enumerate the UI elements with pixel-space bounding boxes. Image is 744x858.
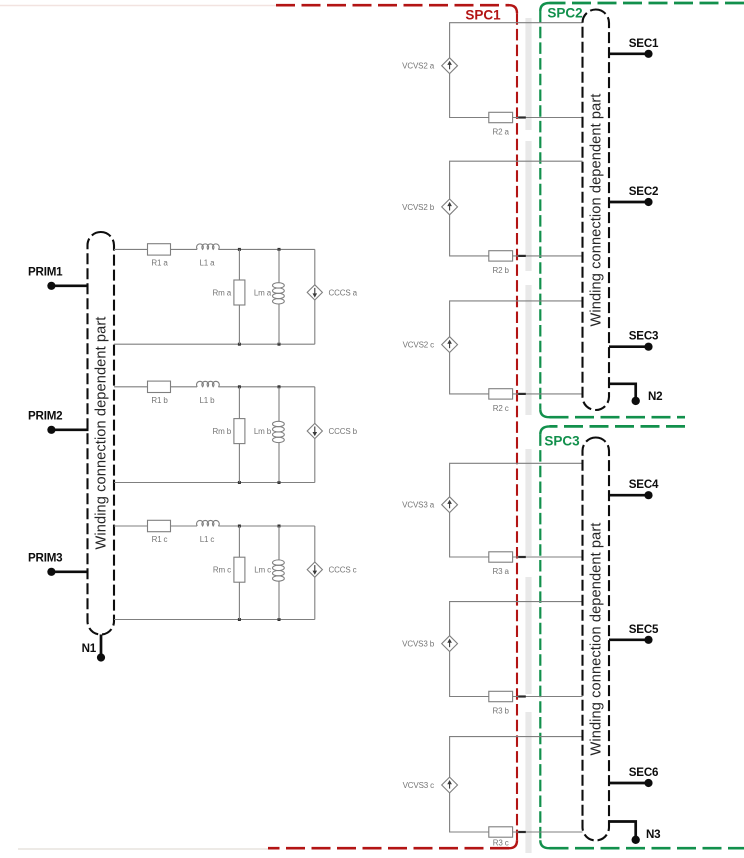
node N3 <box>609 822 661 845</box>
wire loop VCVS3 a bottom <box>450 513 583 557</box>
winding connection dependent part (SPC3 capsule) <box>583 438 610 841</box>
wire loop VCVS2 c top <box>450 301 583 337</box>
svg-text:R2 a: R2 a <box>493 128 510 137</box>
inductor Lm a <box>254 249 284 344</box>
wire loop VCVS3 a top <box>450 463 583 497</box>
resistor R2 b <box>489 251 513 275</box>
wire phase b top rail <box>114 386 315 388</box>
node SEC1 <box>609 37 659 58</box>
resistor R2 a <box>489 112 513 136</box>
wire loop VCVS2 b bottom <box>450 215 583 256</box>
svg-text:N3: N3 <box>646 828 661 841</box>
wire loop VCVS3 c top <box>450 737 583 778</box>
svg-text:SPC2: SPC2 <box>547 6 582 21</box>
boundary box SPC2 <box>540 3 744 417</box>
resistor R1 c <box>148 520 171 544</box>
svg-text:SEC4: SEC4 <box>629 478 659 491</box>
wire loop VCVS2 b top <box>450 161 583 199</box>
boundary box SPC3 <box>540 426 744 848</box>
wire loop VCVS2 a top <box>450 23 583 58</box>
resistor R1 b <box>148 381 171 405</box>
svg-text:N1: N1 <box>82 642 97 655</box>
controlled source CCCS a <box>307 249 357 344</box>
resistor Rm c <box>213 526 245 620</box>
wire phase a top rail <box>114 248 315 250</box>
resistor R3 a <box>489 552 513 576</box>
wire phase c bottom rail <box>114 619 315 621</box>
resistor R3 b <box>489 691 513 715</box>
svg-text:SEC6: SEC6 <box>629 766 659 779</box>
wire ghost residue top <box>0 5 276 7</box>
svg-text:R2 c: R2 c <box>493 404 509 413</box>
inductor Lm b <box>254 387 284 483</box>
svg-text:Lm c: Lm c <box>254 566 271 575</box>
svg-text:Winding connection dependent p: Winding connection dependent part <box>94 317 110 550</box>
winding connection dependent part (SPC2 capsule) <box>583 10 610 411</box>
svg-text:VCVS3 b: VCVS3 b <box>402 640 435 649</box>
svg-text:L1 c: L1 c <box>200 535 215 544</box>
inductor L1 b <box>197 381 220 405</box>
inductor L1 c <box>197 520 220 544</box>
node N2 <box>609 384 662 405</box>
inductor Lm c <box>254 526 284 620</box>
controlled source VCVS3 a <box>402 497 457 513</box>
svg-text:R3 a: R3 a <box>493 567 510 576</box>
svg-text:CCCS c: CCCS c <box>329 566 357 575</box>
svg-text:PRIM2: PRIM2 <box>28 410 62 423</box>
svg-text:R3 b: R3 b <box>493 707 510 716</box>
svg-text:Rm c: Rm c <box>213 566 231 575</box>
svg-text:PRIM1: PRIM1 <box>28 266 63 279</box>
svg-text:R3 c: R3 c <box>493 839 509 848</box>
svg-text:SEC3: SEC3 <box>629 330 659 343</box>
wire phase a bottom rail <box>114 343 315 345</box>
svg-text:R1 b: R1 b <box>151 396 168 405</box>
svg-text:SEC5: SEC5 <box>629 623 659 636</box>
wire loop VCVS3 b bottom <box>450 652 583 697</box>
svg-text:Winding connection dependent p: Winding connection dependent part <box>589 94 605 327</box>
wire loop VCVS3 c bottom <box>450 793 583 832</box>
decorative band is meaningful separator: gray net-highlight column <box>525 18 531 130</box>
boundary box SPC1 <box>268 5 517 848</box>
wire ghost residue bottom <box>18 848 268 850</box>
resistor Rm a <box>212 249 244 344</box>
junction nodes phase b <box>238 385 281 484</box>
controlled source VCVS3 b <box>402 636 457 652</box>
svg-text:PRIM3: PRIM3 <box>28 552 63 565</box>
junction nodes phase a <box>238 248 281 346</box>
svg-text:VCVS2 b: VCVS2 b <box>402 203 435 212</box>
svg-text:Rm b: Rm b <box>212 427 231 436</box>
controlled source CCCS b <box>307 387 357 483</box>
svg-text:L1 a: L1 a <box>200 258 216 267</box>
inductor L1 a <box>197 244 220 268</box>
svg-text:N2: N2 <box>648 390 662 403</box>
svg-text:SEC1: SEC1 <box>629 37 659 50</box>
svg-text:L1 b: L1 b <box>200 396 216 405</box>
resistor Rm b <box>212 387 244 483</box>
node SEC6 <box>609 766 659 787</box>
svg-text:Winding connection dependent p: Winding connection dependent part <box>589 523 605 756</box>
svg-text:CCCS b: CCCS b <box>329 427 358 436</box>
node N1 <box>82 635 106 662</box>
node SEC2 <box>609 185 658 206</box>
controlled source VCVS2 a <box>402 58 457 74</box>
svg-text:CCCS a: CCCS a <box>329 288 358 297</box>
wire phase c top rail <box>114 525 315 527</box>
resistor R3 c <box>489 827 513 848</box>
node SEC4 <box>609 478 659 499</box>
svg-text:SEC2: SEC2 <box>629 185 659 198</box>
svg-text:SPC3: SPC3 <box>544 434 580 449</box>
resistor R2 c <box>489 389 513 413</box>
svg-text:Rm a: Rm a <box>212 288 231 297</box>
svg-text:VCVS2 a: VCVS2 a <box>402 62 435 71</box>
wire loop VCVS2 c bottom <box>450 353 583 394</box>
svg-text:R2 b: R2 b <box>493 266 510 275</box>
wire loop VCVS2 a bottom <box>450 74 583 118</box>
svg-text:R1 a: R1 a <box>151 258 168 267</box>
controlled source CCCS c <box>307 526 356 620</box>
node PRIM2 <box>28 410 89 434</box>
svg-text:Lm b: Lm b <box>254 427 272 436</box>
resistor R1 a <box>148 244 171 268</box>
controlled source VCVS2 b <box>402 199 457 215</box>
node SEC3 <box>609 330 659 351</box>
svg-text:Lm a: Lm a <box>254 288 272 297</box>
svg-text:VCVS3 c: VCVS3 c <box>403 781 435 790</box>
svg-text:VCVS3 a: VCVS3 a <box>402 501 435 510</box>
wire loop VCVS3 b top <box>450 602 583 636</box>
controlled source VCVS2 c <box>403 337 458 353</box>
node PRIM1 <box>28 266 89 290</box>
controlled source VCVS3 c <box>403 777 458 793</box>
node PRIM3 <box>28 552 89 576</box>
svg-text:VCVS2 c: VCVS2 c <box>403 341 435 350</box>
junction nodes phase c <box>238 525 281 622</box>
wire phase b bottom rail <box>114 482 315 484</box>
svg-text:R1 c: R1 c <box>152 535 168 544</box>
winding connection dependent part (primary capsule) <box>88 232 115 635</box>
node SEC5 <box>609 623 659 644</box>
svg-text:SPC1: SPC1 <box>465 8 501 23</box>
